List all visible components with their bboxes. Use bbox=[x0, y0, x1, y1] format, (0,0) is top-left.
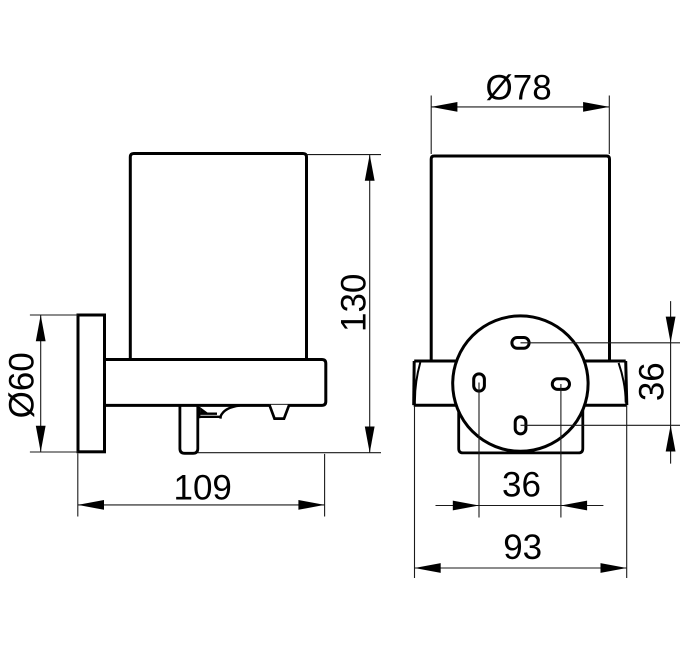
holder wing bottom edge bbox=[414, 404, 627, 407]
dimension O60 arrow up bbox=[36, 315, 46, 341]
dimension 93 arrow right bbox=[601, 563, 627, 573]
holder wing right inner curve bbox=[619, 363, 626, 403]
dimension 109 arrow left bbox=[78, 500, 104, 510]
dimension O60 line bbox=[40, 315, 42, 452]
dimension 36 right arrow down bbox=[666, 317, 676, 343]
dimension 36 bottom line bbox=[436, 505, 604, 507]
dimension O60 arrow down bbox=[36, 426, 46, 452]
wall plate / rosette (side view) bbox=[78, 315, 105, 452]
dimension O78 extension left bbox=[430, 96, 432, 155]
dimension O60 extension top bbox=[30, 314, 78, 316]
dimension 130 extension top bbox=[307, 154, 382, 156]
dimension 93 line bbox=[415, 567, 627, 569]
svg-text:Ø78: Ø78 bbox=[486, 69, 552, 108]
leader from bottom slot bbox=[521, 424, 681, 426]
dimension 36 right arrow up bbox=[666, 425, 676, 451]
holder wing left outer edge bbox=[412, 361, 416, 405]
holder lower body rectangle bbox=[459, 406, 583, 453]
spout wedge bbox=[200, 407, 209, 413]
spout bracket lower line bbox=[200, 417, 221, 419]
holder wing top edge bbox=[414, 360, 626, 363]
dimension 130 line bbox=[369, 155, 371, 453]
screw slot left bbox=[474, 374, 485, 391]
dimension 109 line bbox=[78, 504, 325, 506]
dimension 93 extension right bbox=[626, 406, 628, 578]
leader from top slot bbox=[521, 342, 681, 344]
holder ring bar (side view) bbox=[105, 360, 326, 406]
dimension 36 right line bbox=[670, 301, 672, 464]
dimension O78 extension right bbox=[608, 96, 610, 155]
glass tumbler (front view) bbox=[431, 156, 609, 361]
dimension 130 extension bottom bbox=[198, 452, 381, 454]
wall rosette circle bbox=[453, 316, 588, 451]
screw slot bottom bbox=[515, 417, 526, 434]
dimension 36 bottom arrow left bbox=[561, 501, 587, 511]
svg-text:130: 130 bbox=[334, 274, 373, 332]
leader from left slot bbox=[478, 383, 480, 518]
dimension 93 extension left bbox=[414, 406, 416, 578]
svg-text:109: 109 bbox=[173, 469, 231, 508]
dimension 109 extension right bbox=[324, 454, 326, 517]
svg-text:36: 36 bbox=[502, 466, 541, 505]
dimension 36 bottom arrow right bbox=[453, 501, 479, 511]
svg-text:36: 36 bbox=[633, 362, 672, 401]
dimension 109 arrow right bbox=[298, 500, 324, 510]
dimension 130 arrow up bbox=[365, 155, 375, 181]
spout bracket upper line bbox=[199, 407, 217, 418]
leader from right slot bbox=[560, 384, 562, 518]
dimension O78 arrow right bbox=[583, 102, 609, 112]
dimension 130 arrow down bbox=[365, 427, 375, 453]
svg-text:93: 93 bbox=[503, 528, 542, 567]
screw slot right bbox=[552, 379, 569, 390]
dimension 109 extension left bbox=[77, 454, 79, 517]
soap pump nozzle body bbox=[180, 405, 198, 453]
dimension 93 arrow left bbox=[415, 563, 441, 573]
holder wing right outer edge bbox=[626, 361, 627, 405]
spout arc bbox=[221, 406, 240, 417]
clip notch bbox=[269, 405, 289, 419]
glass tumbler (side view) bbox=[130, 154, 306, 361]
holder wing left inner curve bbox=[415, 362, 420, 404]
svg-text:Ø60: Ø60 bbox=[3, 352, 42, 418]
dimension O78 line bbox=[431, 106, 609, 108]
dimension O60 extension bottom bbox=[30, 451, 78, 453]
dimension O78 arrow left bbox=[431, 102, 457, 112]
screw slot top bbox=[512, 338, 529, 349]
